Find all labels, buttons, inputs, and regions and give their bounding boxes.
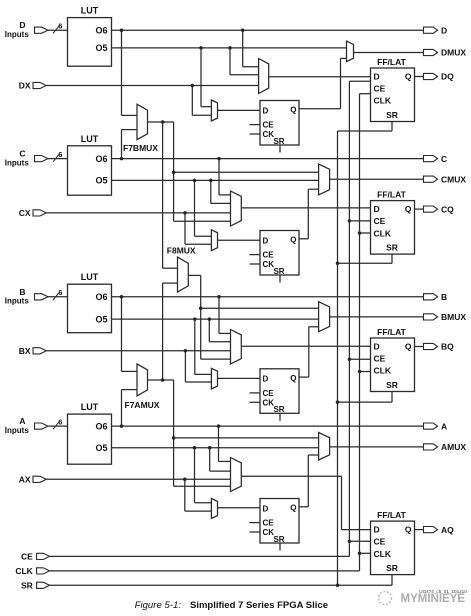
svg-text:CE: CE (374, 537, 386, 547)
svg-text:LUT: LUT (81, 272, 99, 282)
svg-text:CE: CE (263, 121, 275, 130)
svg-text:A: A (441, 421, 447, 431)
svg-text:F7BMUX: F7BMUX (123, 143, 158, 153)
svg-text:D: D (263, 375, 269, 384)
svg-text:D: D (263, 236, 269, 245)
svg-text:CE: CE (263, 251, 275, 260)
svg-text:Q: Q (290, 504, 296, 513)
svg-text:D: D (263, 504, 269, 513)
svg-text:A: A (19, 416, 25, 426)
svg-text:CE: CE (374, 354, 386, 364)
svg-text:Q: Q (405, 341, 412, 351)
svg-text:Q: Q (405, 71, 412, 81)
svg-text:SR: SR (386, 563, 398, 573)
svg-text:C: C (441, 154, 447, 164)
svg-text:SR: SR (273, 137, 284, 146)
svg-text:SR: SR (273, 535, 284, 544)
svg-text:BX: BX (19, 346, 31, 356)
svg-text:D: D (374, 341, 380, 351)
svg-text:D: D (374, 204, 380, 214)
svg-text:BMUX: BMUX (441, 312, 466, 322)
svg-text:FF/LAT: FF/LAT (377, 57, 406, 67)
svg-text:6: 6 (58, 288, 62, 297)
svg-text:SR: SR (273, 405, 284, 414)
svg-text:CLK: CLK (374, 228, 392, 238)
svg-text:AX: AX (19, 474, 31, 484)
svg-text:BQ: BQ (441, 342, 454, 352)
svg-text:B: B (19, 287, 25, 297)
svg-text:LUT: LUT (81, 402, 99, 412)
svg-text:CE: CE (374, 84, 386, 94)
svg-text:Q: Q (290, 374, 296, 383)
svg-text:FF/LAT: FF/LAT (377, 190, 406, 200)
svg-text:D: D (441, 25, 447, 35)
svg-text:C: C (19, 149, 25, 159)
svg-text:SR: SR (386, 110, 398, 120)
svg-text:O6: O6 (95, 421, 107, 431)
svg-text:6: 6 (58, 418, 62, 427)
svg-text:O6: O6 (95, 292, 107, 302)
svg-text:6: 6 (58, 22, 62, 31)
svg-text:B: B (441, 292, 447, 302)
svg-text:O6: O6 (95, 25, 107, 35)
svg-text:Q: Q (405, 525, 412, 535)
svg-text:Q: Q (405, 204, 412, 214)
svg-text:CLK: CLK (374, 366, 392, 376)
svg-text:Inputs: Inputs (5, 426, 30, 435)
svg-text:LUT: LUT (81, 134, 99, 144)
svg-text:DMUX: DMUX (441, 48, 466, 58)
svg-text:Simplified 7 Series FPGA Slice: Simplified 7 Series FPGA Slice (190, 600, 328, 611)
svg-text:CQ: CQ (441, 204, 454, 214)
svg-text:D: D (19, 20, 25, 30)
svg-text:FF/LAT: FF/LAT (377, 327, 406, 337)
svg-text:6: 6 (58, 150, 62, 159)
svg-text:DQ: DQ (441, 72, 454, 82)
svg-text:Q: Q (290, 106, 296, 115)
svg-text:O5: O5 (95, 314, 107, 324)
svg-text:SR: SR (21, 580, 33, 590)
svg-text:CE: CE (263, 519, 275, 528)
svg-text:CE: CE (21, 551, 33, 561)
svg-text:CE: CE (374, 216, 386, 226)
svg-text:Figure 5-1:: Figure 5-1: (135, 600, 182, 611)
svg-text:D: D (374, 71, 380, 81)
svg-text:CMUX: CMUX (441, 174, 466, 184)
svg-text:Inputs: Inputs (5, 159, 30, 168)
svg-text:CLK: CLK (374, 549, 392, 559)
svg-text:SR: SR (273, 267, 284, 276)
svg-text:F7AMUX: F7AMUX (125, 400, 160, 410)
svg-text:AQ: AQ (441, 525, 454, 535)
svg-text:FF/LAT: FF/LAT (377, 510, 406, 520)
svg-text:O5: O5 (95, 176, 107, 186)
svg-text:Q: Q (290, 236, 296, 245)
svg-text:CX: CX (19, 208, 31, 218)
svg-text:DX: DX (19, 81, 31, 91)
svg-text:LUT: LUT (81, 6, 99, 16)
svg-text:SR: SR (386, 243, 398, 253)
svg-text:O5: O5 (95, 43, 107, 53)
svg-text:Inputs: Inputs (5, 30, 30, 39)
svg-text:AMUX: AMUX (441, 442, 466, 452)
svg-text:O6: O6 (95, 154, 107, 164)
svg-text:O5: O5 (95, 443, 107, 453)
svg-text:D: D (374, 525, 380, 535)
svg-text:CE: CE (263, 389, 275, 398)
svg-text:CLK: CLK (374, 96, 392, 106)
svg-text:CLK: CLK (15, 566, 33, 576)
svg-text:SR: SR (386, 380, 398, 390)
svg-text:Inputs: Inputs (5, 297, 30, 306)
svg-text:MYMINIEYE: MYMINIEYE (401, 593, 466, 605)
svg-text:D: D (263, 106, 269, 115)
svg-text:F8MUX: F8MUX (167, 245, 196, 255)
